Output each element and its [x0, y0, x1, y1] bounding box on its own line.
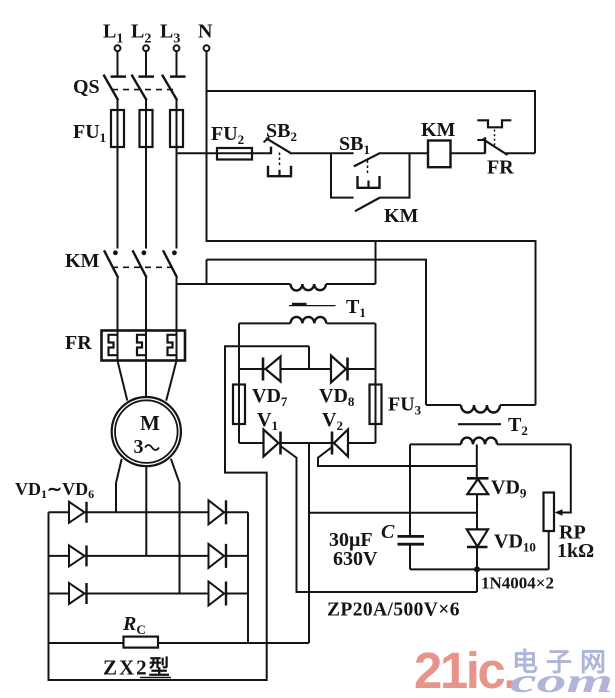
svg-text:N: N	[198, 21, 213, 43]
svg-text:com: com	[510, 663, 613, 698]
svg-text:1N4004×2: 1N4004×2	[481, 574, 554, 593]
svg-text:KM: KM	[65, 250, 100, 272]
svg-text:21ic.: 21ic.	[414, 642, 515, 698]
svg-text:QS: QS	[73, 76, 100, 98]
svg-text:ZP20A/500V×6: ZP20A/500V×6	[327, 600, 460, 621]
svg-text:1kΩ: 1kΩ	[557, 540, 594, 562]
svg-text:VD1∼VD6: VD1∼VD6	[15, 479, 94, 501]
svg-text:FR: FR	[487, 157, 514, 179]
svg-text:M: M	[140, 411, 160, 435]
svg-text:KM: KM	[421, 119, 456, 141]
svg-text:KM: KM	[384, 205, 419, 227]
svg-text:FR: FR	[65, 332, 92, 354]
svg-text:3: 3	[134, 436, 144, 458]
svg-text:ZX2型: ZX2型	[103, 656, 172, 680]
svg-text:C: C	[381, 521, 395, 543]
svg-text:630V: 630V	[333, 548, 378, 570]
